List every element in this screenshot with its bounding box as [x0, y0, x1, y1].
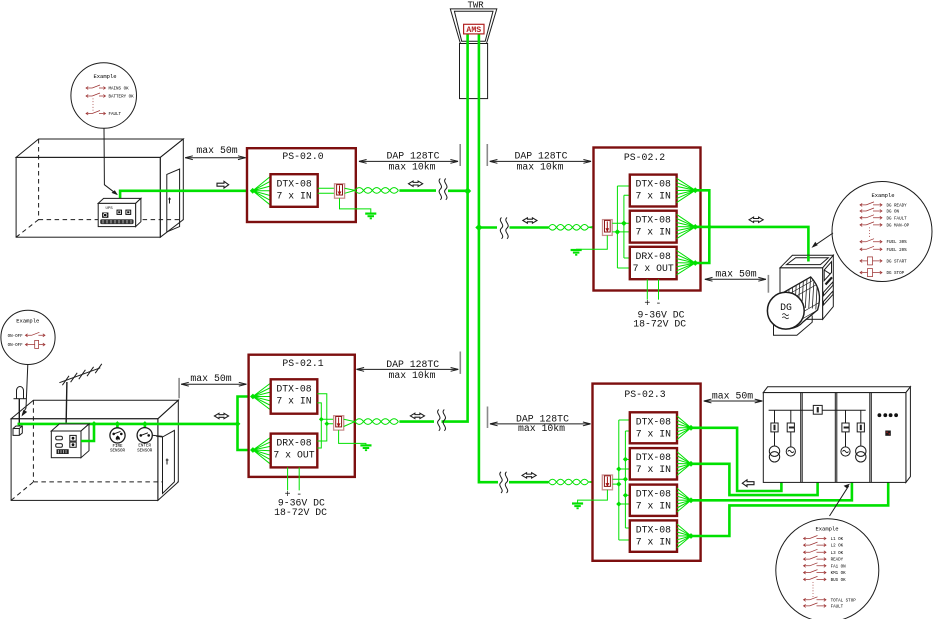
bidirectional flow arrow (PS-02.1 chain): [410, 413, 424, 418]
twisted pair cable (PS-02.3 in): [549, 479, 603, 485]
svg-text:7 x IN: 7 x IN: [276, 190, 311, 201]
svg-text:SENSOR: SENSOR: [137, 449, 153, 453]
node dots feed buses (PS-02.3): [623, 457, 628, 462]
ground symbol (PS-02.2): [571, 250, 582, 255]
node fan vertex module4 PS-02.3: [688, 533, 694, 539]
svg-text:DTX-08: DTX-08: [636, 179, 671, 190]
svg-text:PS-02.2: PS-02.2: [624, 152, 665, 163]
surge protector F1 (PS-02.0): [335, 184, 345, 198]
enter sensor (door contact): [137, 428, 153, 454]
room 2 building (remote site, isometric): [11, 400, 178, 500]
svg-text:max 50m: max 50m: [715, 269, 756, 280]
switch symbol ON-OFF row1: [25, 332, 45, 337]
svg-text:BUS OK: BUS OK: [831, 579, 847, 583]
switch symbol L3 OK: [804, 549, 827, 554]
wire fan outputs module 2 (PS-02.2): [677, 214, 696, 238]
svg-text:7 x IN: 7 x IN: [636, 227, 671, 238]
wire green room2 bus: [18, 423, 238, 426]
leader line from DG example circle: [812, 233, 834, 248]
surge protector F1 (PS-02.3): [602, 475, 612, 490]
svg-text:DG STOP: DG STOP: [887, 272, 905, 276]
switch symbol FUEL 20%: [860, 246, 882, 251]
wire trunk DAP bus left: [442, 34, 468, 422]
switch symbol BATTERY OK: [86, 93, 106, 98]
PS-02.2 cabinet box: [594, 148, 701, 291]
twisted pair cable (PS-02.1 out): [344, 419, 399, 427]
svg-text:FAULT: FAULT: [109, 113, 122, 117]
switch symbol KM1 OK: [804, 570, 827, 575]
leader line from switchboard example circle: [830, 484, 851, 516]
module DTX-08 7xIN no.4 (PS-02.3): [630, 520, 677, 551]
wire DTX/DRX outputs to protector (PS-02.1): [317, 394, 333, 448]
module DTX-08 7xIN no.3 (PS-02.3): [630, 485, 677, 516]
control device panel 4: [885, 431, 891, 436]
svg-text:max 50m: max 50m: [190, 373, 231, 384]
svg-text:MAINS OK: MAINS OK: [109, 88, 130, 92]
generator front disc DG: [767, 292, 804, 329]
svg-text:TOTAL STOP: TOTAL STOP: [831, 599, 857, 603]
node junction trunk to PS-02.0: [464, 187, 471, 194]
svg-text:DRX-08: DRX-08: [276, 438, 311, 449]
svg-text:AMS: AMS: [466, 26, 481, 35]
node fan vertex module3 PS-02.3: [688, 497, 694, 503]
wire twisted pair to trunk (PS-02.1): [399, 420, 434, 423]
wire drop into DG vent: [807, 256, 810, 262]
switch symbol L2 OK: [804, 542, 827, 547]
switch symbol TOTAL STOP: [804, 597, 827, 602]
switch symbol DG READY: [860, 202, 882, 207]
ground symbol (PS-02.0): [365, 214, 376, 219]
svg-text:max 10km: max 10km: [388, 370, 435, 381]
switch symbol DG MAN-OP: [860, 222, 882, 227]
svg-text:READY: READY: [831, 559, 844, 563]
module DTX-08 7xIN no.1 (PS-02.3): [630, 412, 677, 443]
svg-text:+: +: [644, 298, 650, 309]
node fan vertex module2 PS-02.3: [688, 461, 694, 467]
svg-text:18-72V DC: 18-72V DC: [274, 507, 327, 518]
example callout circle DG signals: [832, 182, 932, 282]
generator G2 symbol: [841, 447, 850, 456]
busbar single line: [769, 409, 866, 411]
node fan vertex DRX PS-02.1: [250, 447, 256, 453]
wire fan outputs module 1 (PS-02.3): [677, 416, 691, 440]
switch symbol DG ON: [860, 208, 882, 213]
svg-text:L3 OK: L3 OK: [831, 552, 844, 556]
svg-text:TWR: TWR: [467, 1, 484, 11]
TV antenna on roof: [59, 364, 101, 431]
svg-text:7 x IN: 7 x IN: [636, 464, 671, 475]
svg-text:DG ON: DG ON: [887, 211, 900, 215]
svg-text:KM1 OK: KM1 OK: [831, 572, 847, 576]
svg-text:7 x IN: 7 x IN: [636, 191, 671, 202]
svg-text:DTX-08: DTX-08: [636, 524, 671, 535]
dotted link line: [812, 582, 814, 597]
svg-text:18-72V DC: 18-72V DC: [633, 318, 686, 329]
node bracket tee room2 bus: [235, 421, 241, 427]
wire protector to module feed buses (PS-02.3): [613, 420, 630, 540]
svg-text:DG START: DG START: [887, 260, 908, 264]
wire green from UPS to PS-02.0: [120, 191, 253, 201]
svg-text:DAP 128TC: DAP 128TC: [386, 359, 439, 370]
node fan vertex DTX PS-02.0: [250, 188, 256, 194]
wire protector to module feed buses (PS-02.2): [612, 186, 630, 268]
indicator lamps panel 4: [878, 413, 898, 417]
wire fan into DTX-08 inputs: [253, 176, 271, 205]
dimension max 50m PS-02.2 to DG: [705, 269, 769, 293]
svg-text:DAP 128TC: DAP 128TC: [387, 151, 440, 162]
breaker Q2 open: [787, 423, 794, 432]
outdoor beacon lamp on wall: [13, 387, 26, 436]
ground wire from protector (PS-02.3): [578, 490, 608, 503]
svg-text:-: -: [656, 298, 662, 309]
wire squiggle to twisted pair (PS-02.3): [509, 481, 549, 484]
svg-text:PS-02.0: PS-02.0: [282, 151, 323, 162]
ground wire from protector (PS-02.2): [576, 235, 607, 249]
switch symbol READY: [804, 556, 827, 561]
panel dividers: [800, 393, 802, 483]
wire fan outputs DRX module (PS-02.2): [677, 251, 696, 275]
svg-text:max 10km: max 10km: [518, 423, 565, 434]
wire module3 to switchboard panel3: [691, 482, 852, 500]
ground wire from protector (PS-02.0): [340, 198, 371, 213]
generator housing right face: [823, 255, 834, 319]
svg-text:L1 OK: L1 OK: [831, 538, 844, 542]
cable break squiggle (PS-02.2 chain): [500, 218, 508, 239]
bus tie breaker: [813, 405, 822, 414]
wire DC supply under DRX (PS-02.1): [288, 467, 300, 490]
example callout circle ON-OFF: [1, 310, 55, 364]
svg-text:Example: Example: [871, 192, 894, 199]
svg-text:DTX-08: DTX-08: [276, 383, 311, 394]
module DRX-08 7xOUT (PS-02.1): [271, 434, 318, 468]
leader line from example circle to UPS: [104, 128, 118, 195]
bidirectional flow arrow (DG wire): [749, 217, 763, 222]
wire trunk to PS-02.2: [479, 226, 497, 229]
svg-text:max 50m: max 50m: [712, 390, 753, 401]
svg-text:DG READY: DG READY: [887, 204, 908, 208]
cable break squiggle (PS-02.0 chain): [439, 179, 447, 200]
wire fan into DRX-08 (PS-02.1): [253, 437, 271, 464]
node dot feed bus B (PS-02.2): [621, 221, 627, 227]
module DTX-08 7xIN no.2 (PS-02.2): [630, 211, 677, 243]
svg-text:PS-02.3: PS-02.3: [624, 389, 665, 400]
svg-text:FA1 ON: FA1 ON: [831, 565, 847, 569]
svg-text:DTX-08: DTX-08: [276, 178, 311, 189]
svg-text:DG: DG: [780, 302, 792, 313]
svg-text:DTX-08: DTX-08: [636, 215, 671, 226]
example callout circle switchboard signals: [776, 519, 879, 619]
svg-text:UPS: UPS: [106, 207, 114, 211]
svg-text:DTX-08: DTX-08: [636, 416, 671, 427]
svg-text:ENTER: ENTER: [138, 445, 151, 449]
svg-text:DAP 128TC: DAP 128TC: [515, 151, 568, 162]
DG diesel generator set: [767, 255, 833, 335]
example callout circle UPS signals: [71, 63, 137, 129]
switch symbol FUEL 30%: [860, 239, 882, 244]
bidirectional flow arrow (PS-02.3 chain): [522, 473, 536, 478]
fire sensor: [110, 428, 126, 454]
svg-text:7 x OUT: 7 x OUT: [273, 450, 314, 461]
wire collector bus right of PS-02.2: [695, 190, 709, 263]
node fan vertex DTX PS-02.1: [250, 394, 256, 400]
ground symbol (PS-02.3): [572, 504, 583, 509]
svg-text:max 10km: max 10km: [516, 161, 563, 172]
svg-text:Example: Example: [93, 73, 116, 80]
dotted link line: [869, 228, 871, 239]
twisted pair cable (PS-02.0 out): [345, 188, 399, 194]
node fan vertex DRX PS-02.2: [692, 260, 698, 266]
room 1 building (equipment shelter, isometric): [16, 139, 183, 237]
module DTX-08 7xIN (PS-02.0): [271, 174, 318, 207]
breaker Q1 closed: [771, 423, 778, 432]
wire fan outputs module 2 (PS-02.3): [677, 452, 691, 476]
ground symbol (PS-02.1): [360, 445, 371, 450]
module DRX-08 7xOUT (PS-02.2): [630, 247, 677, 279]
leader line from ON-OFF circle to beacon: [22, 365, 28, 417]
twisted pair cable (PS-02.2 in): [549, 225, 603, 231]
button symbol DG START: [860, 259, 882, 262]
svg-text:7 x OUT: 7 x OUT: [633, 263, 674, 274]
node fan vertex module1 PS-02.2: [692, 187, 698, 193]
wire device to bus: [81, 424, 94, 441]
svg-text:7 x IN: 7 x IN: [636, 536, 671, 547]
switch symbol L1 OK: [804, 536, 827, 541]
bidirectional flow arrow (PS-02.0 chain): [409, 181, 423, 186]
node junction trunk to PS-02.2: [475, 224, 482, 231]
dimension DAP 128TC trunk to PS-02.3: [488, 407, 591, 435]
ground wire from protector (PS-02.1): [339, 430, 366, 445]
svg-text:FUEL 30%: FUEL 30%: [887, 241, 908, 245]
node dot feed bus A (PS-02.2): [615, 229, 621, 235]
wire trunk DAP bus right: [479, 34, 498, 483]
flow arrow on room1 wire: [217, 181, 229, 188]
svg-text:max 10km: max 10km: [388, 161, 435, 172]
node dot collector bus (PS-02.2): [707, 224, 713, 230]
wire fan outputs module 3 (PS-02.3): [677, 488, 691, 512]
node dot protector input B (PS-02.1): [324, 421, 329, 426]
cable break squiggle (PS-02.3 chain): [500, 472, 508, 493]
PS-02.3 cabinet box: [593, 384, 701, 561]
drum vertical ribs: [781, 270, 818, 314]
svg-text:DRX-08: DRX-08: [636, 251, 671, 262]
switchboard cabinet (isometric): [763, 387, 910, 483]
svg-text:Example: Example: [815, 525, 838, 532]
svg-text:7 x IN: 7 x IN: [636, 428, 671, 439]
generator G1 symbol: [786, 447, 795, 456]
svg-text:DTX-08: DTX-08: [636, 489, 671, 500]
drum shading hatch: [778, 275, 833, 321]
svg-text:BATTERY OK: BATTERY OK: [109, 96, 135, 100]
wire fan into DTX-08 (PS-02.1): [253, 383, 271, 410]
svg-text:FAULT: FAULT: [831, 605, 844, 609]
svg-text:7 x IN: 7 x IN: [636, 501, 671, 512]
wire enter sensor stub: [144, 424, 147, 428]
button symbol ON-OFF row2: [25, 343, 45, 346]
wire fan outputs module 1 (PS-02.2): [677, 178, 696, 202]
generator housing air vent: [787, 258, 829, 265]
wire squiggle to twisted pair: [510, 226, 549, 229]
wire bracket split into PS-02.1: [238, 397, 253, 451]
open door of room 2: [156, 430, 174, 493]
node dot enter sensor tap: [142, 421, 148, 427]
switch symbol FAULT: [86, 111, 106, 116]
wire pair DTX-08 to surge protector: [318, 188, 335, 193]
wire fire sensor stub: [116, 424, 119, 428]
svg-text:ON-OFF: ON-OFF: [8, 335, 24, 339]
wire module1 to switchboard panel1: [691, 428, 781, 491]
svg-text:DG FAULT: DG FAULT: [887, 217, 908, 221]
transformer T1 symbol: [769, 446, 779, 462]
svg-text:ON-OFF: ON-OFF: [8, 344, 24, 348]
node fan vertex module2 PS-02.2: [692, 224, 698, 230]
svg-text:DTX-08: DTX-08: [636, 452, 671, 463]
wire module2 to switchboard panel2: [691, 464, 818, 495]
module DTX-08 7xIN no.2 (PS-02.3): [630, 448, 677, 479]
tower TWR mast outline: [450, 9, 497, 99]
surge protector F1 (PS-02.2): [603, 220, 613, 236]
bidirectional flow arrow (room2 wire): [214, 413, 228, 418]
wire DC supply under DRX (PS-02.2): [647, 279, 658, 299]
node dot fire sensor tap: [115, 421, 121, 427]
PS-02.0 cabinet box: [247, 148, 356, 222]
bidirectional flow arrow (PS-02.2 chain): [523, 218, 537, 223]
svg-text:L2 OK: L2 OK: [831, 545, 844, 549]
door of room 1: [167, 169, 180, 232]
svg-text:FUEL 20%: FUEL 20%: [887, 249, 908, 253]
wire enter sensor to door: [152, 435, 162, 436]
wire twisted pair to trunk: [399, 189, 436, 192]
switch symbol BUS OK: [804, 576, 827, 581]
dimension DAP 128TC trunk to PS-02.2: [487, 144, 591, 172]
svg-text:Example: Example: [16, 317, 39, 324]
wire PS-02.2 to DG: [709, 227, 808, 261]
dimension DAP 128TC PS-02.0 to trunk: [359, 144, 460, 172]
control unit device in room 2: [51, 424, 89, 458]
PS-02.1 cabinet box: [249, 355, 355, 477]
button symbol DG STOP: [860, 271, 882, 274]
node fan vertex module1 PS-02.3: [688, 425, 694, 431]
generator housing front face: [780, 268, 823, 320]
flow arrow left (to PS-02.3): [742, 480, 754, 487]
UPS unit in room 1: [98, 198, 141, 226]
transformer T2 symbol: [856, 446, 866, 462]
AMS unit on tower: [464, 24, 484, 35]
dotted link line: [92, 99, 94, 112]
generator base slab: [774, 316, 813, 336]
switch symbol FAULT: [804, 603, 827, 608]
svg-text:max 50m: max 50m: [196, 145, 237, 156]
switch symbol DG FAULT: [860, 215, 882, 220]
wire module4 to switchboard panel4: [691, 482, 888, 536]
dimension max 50m room1 to PS-02.0: [185, 145, 245, 159]
module DTX-08 7xIN (PS-02.1): [271, 379, 318, 413]
generator housing top face: [780, 255, 833, 267]
svg-text:SENSOR: SENSOR: [110, 450, 126, 454]
dimension max 50m room2 to PS-02.1: [179, 373, 246, 398]
breaker Q3 open: [842, 423, 849, 432]
dimension DAP 128TC PS-02.1 to trunk: [357, 352, 461, 381]
switch symbol FA1 ON: [804, 563, 827, 568]
breaker Q4 closed: [857, 423, 864, 432]
svg-text:FIRE: FIRE: [112, 445, 123, 449]
surge protector F1 (PS-02.1): [334, 416, 344, 430]
switch symbol MAINS OK: [86, 85, 106, 90]
node dot protector input A (PS-02.1): [319, 417, 324, 422]
cable break squiggle (PS-02.1 chain): [438, 410, 446, 431]
svg-text:PS-02.1: PS-02.1: [282, 358, 323, 369]
node dot device tap: [91, 421, 97, 427]
feeder drop lines: [775, 410, 861, 447]
dimension max 50m PS-02.3 to cabinet: [704, 390, 763, 403]
module DTX-08 7xIN no.1 (PS-02.2): [630, 175, 677, 207]
svg-text:7 x IN: 7 x IN: [276, 395, 311, 406]
wire fan outputs module 4 (PS-02.3): [677, 524, 691, 548]
svg-text:DG MAN-OP: DG MAN-OP: [887, 224, 910, 228]
generator cylinder drum: [770, 277, 819, 329]
housing right face vent details: [824, 262, 831, 281]
